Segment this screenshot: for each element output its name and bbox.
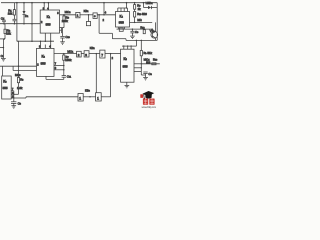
wire G3-G4 [81, 53, 84, 55]
capacitor C11 [63, 70, 65, 76]
svg-text:2: 2 [78, 53, 80, 57]
svg-text:1: 1 [77, 14, 79, 18]
gate box G3 [77, 51, 82, 57]
capacitor C10 [62, 28, 64, 37]
wire R1 top lead [13, 3, 15, 10]
svg-text:KB1: KB1 [84, 9, 89, 13]
svg-text:LED1: LED1 [146, 1, 154, 5]
IC K5 555 box right [121, 49, 134, 82]
svg-text:R12: R12 [140, 26, 144, 30]
node R10 bottom [134, 22, 136, 24]
svg-text:MΩ2: MΩ2 [65, 10, 72, 14]
svg-text:MΩ: MΩ [137, 18, 141, 22]
pin 3 stub K1 right [60, 14, 76, 16]
wire right rail [156, 3, 158, 41]
component box C5 [86, 22, 90, 26]
svg-text:510: 510 [146, 61, 151, 64]
wire branch V3 [31, 3, 33, 42]
svg-text:R10 510: R10 510 [137, 12, 147, 16]
svg-text:7: 7 [101, 53, 103, 57]
wire bus to W1 [126, 3, 128, 8]
svg-text:1k: 1k [138, 7, 142, 11]
ground under C6 [11, 105, 16, 107]
node x96.3 [96, 53, 98, 55]
resistor R8 [18, 66, 20, 77]
node x88.5 [88, 14, 90, 16]
wire W4 bottom long [14, 97, 26, 99]
node pin6 joint [63, 65, 65, 67]
node bus dots [123, 45, 124, 46]
LED D2 symbol [143, 3, 145, 8]
svg-text:3: 3 [85, 53, 87, 57]
svg-text:1: 1 [97, 96, 99, 100]
op IC K1 555 box [40, 10, 59, 33]
wire G5 out [105, 53, 121, 55]
ground under C9 [130, 35, 135, 37]
gate box G2 [93, 13, 97, 19]
wire K3 bus [13, 91, 15, 102]
pin stubs K4 top [117, 8, 119, 12]
node D1 top [23, 2, 25, 4]
wire left horizontal W2 [0, 23, 40, 25]
resistor R11 [140, 40, 142, 50]
wire K4 top bus [118, 7, 128, 9]
pin 3 stub K4 right [130, 21, 153, 23]
pin stubs K1 right lower [60, 27, 65, 29]
wire top rail W1 [1, 2, 157, 4]
ground under C10 [60, 41, 65, 43]
buffer box G1 [76, 12, 80, 17]
capacitor C6 [11, 101, 16, 103]
svg-text:KB2: KB2 [90, 46, 95, 50]
svg-text:www.dzdiy.com: www.dzdiy.com [142, 107, 157, 109]
svg-text:R13: R13 [153, 58, 157, 62]
wire stub y38.7 [112, 38, 126, 40]
pin 8 stub K1 top [43, 3, 45, 10]
pin stubs K3 right [11, 90, 14, 92]
svg-text:MΩ5: MΩ5 [15, 73, 20, 77]
svg-text:3: 3 [57, 12, 59, 15]
svg-text:100k: 100k [65, 58, 72, 62]
node V3 bottom [31, 40, 33, 42]
svg-text:K5: K5 [124, 57, 128, 61]
pin 7 stub K2 right [54, 65, 64, 67]
capacitor C1 [3, 17, 5, 20]
IC K2 555 box [37, 48, 55, 76]
wire W3 to R8 node [18, 65, 20, 67]
resistor R2 body on left branch [4, 24, 6, 30]
capacitor C9 [132, 28, 134, 30]
svg-text:555: 555 [119, 21, 124, 25]
svg-text:10k: 10k [8, 11, 13, 15]
wire drop x96.3 [95, 54, 97, 93]
pin stubs IC5 top [123, 46, 125, 49]
wire G4-G5 [89, 53, 100, 55]
watermark red char partial left [140, 94, 143, 98]
svg-text:K2: K2 [42, 55, 46, 59]
diode D1 [23, 3, 25, 11]
ground at V2 bottom [1, 58, 6, 60]
ground under C8 [143, 77, 148, 79]
svg-text:4: 4 [105, 11, 107, 14]
svg-text:c: c [94, 14, 96, 18]
svg-text:555: 555 [46, 23, 51, 27]
capacitor C2 below R1 [13, 15, 15, 19]
wire stub right of W3 [12, 66, 14, 70]
svg-text:R8: R8 [20, 77, 23, 81]
wire long vertical V1 [16, 3, 18, 42]
wire stub down to C5 box [88, 15, 90, 22]
svg-text:MΩ1: MΩ1 [67, 50, 74, 54]
pin stubs K1 bottom [44, 33, 46, 41]
watermark graduation cap [142, 91, 154, 99]
watermark red characters [143, 99, 155, 105]
wire out right y63.8 [141, 63, 160, 65]
IC K4 555 box [116, 12, 130, 28]
node W2 junctions [3, 23, 5, 25]
pin stubs IC5 right [134, 63, 141, 65]
svg-text:C6: C6 [18, 101, 22, 105]
resistor R7 [63, 53, 65, 55]
pin stubs K4 bottom [117, 27, 119, 29]
wire W6 right mid [126, 39, 157, 41]
svg-text:10k: 10k [6, 31, 11, 35]
wire drop x110.6 [110, 54, 112, 97]
wire IC5 top bus [135, 40, 137, 46]
wire IC5 right bus [140, 56, 142, 75]
svg-text:C10: C10 [65, 35, 70, 39]
wire from G2 node down-over [98, 14, 100, 16]
svg-text:2: 2 [112, 57, 114, 60]
resistor R6 [63, 15, 65, 16]
wire G7 out [101, 96, 110, 98]
wire vertical V1 lower [18, 41, 20, 66]
svg-text:C8: C8 [148, 72, 152, 76]
node W1 x126.5 [126, 2, 128, 4]
pin 4 stub K1 top [47, 3, 49, 10]
node stub y47.5 [3, 47, 5, 49]
node on W1 at x16.9 [16, 2, 18, 4]
wire mid-left W3 [0, 65, 37, 67]
IC K3 555 box bottom-left [2, 76, 12, 99]
pin 6 stub K2 right [54, 69, 64, 71]
gate box G5 [100, 50, 105, 58]
gate box G6 [78, 94, 83, 102]
svg-text:KB3: KB3 [85, 89, 90, 93]
wire G1 to G2 [80, 14, 93, 16]
wire G6-G7 [83, 96, 95, 98]
svg-text:K4: K4 [120, 14, 124, 18]
svg-text:C11: C11 [67, 75, 72, 79]
svg-text:Rb 51k: Rb 51k [144, 51, 153, 55]
svg-text:1: 1 [79, 97, 81, 101]
transistor VT1 [151, 31, 158, 38]
node W5 dots [45, 40, 47, 42]
node W6 [136, 40, 138, 42]
node [141, 63, 142, 64]
node W5 dot [40, 40, 42, 42]
resistor R10 [134, 12, 136, 18]
gate box G4 [84, 51, 89, 57]
gate box G7 [96, 93, 102, 101]
svg-text:2: 2 [37, 64, 39, 67]
wire G2 to K4 [97, 14, 115, 16]
svg-text:555: 555 [123, 65, 128, 69]
resistor R13 body [152, 63, 156, 65]
pin stubs K2 top [40, 41, 42, 48]
node bus x152 [151, 28, 153, 30]
wire V2 left vertical [4, 34, 6, 39]
wire under K1 W5 [17, 40, 54, 42]
capacitor C8 [141, 74, 145, 76]
wire K2 bottom [45, 76, 47, 79]
watermark red char detail [144, 99, 154, 105]
node stub y38.9 [3, 38, 5, 40]
sensor box MO3 [119, 28, 123, 31]
svg-text:K1: K1 [47, 15, 51, 19]
node x110.6 [110, 53, 112, 55]
resistor R1 body [13, 10, 15, 15]
resistor R12 body [143, 30, 145, 34]
node R6 top [63, 14, 65, 16]
svg-text:2: 2 [41, 21, 43, 24]
node R9 top [134, 2, 136, 4]
svg-text:C9: C9 [135, 30, 139, 34]
svg-text:K3: K3 [3, 79, 7, 83]
node x90 [89, 96, 91, 98]
svg-text:1.0k: 1.0k [17, 86, 23, 90]
svg-text:100k: 100k [62, 19, 69, 23]
resistor R9 [134, 3, 136, 5]
svg-text:D1: D1 [25, 14, 29, 18]
wire K2 out right [54, 53, 77, 55]
wire K4 bottom bus [117, 28, 153, 30]
ground IC5 bottom [126, 82, 128, 85]
node from W1 x104 [103, 3, 105, 15]
svg-text:555: 555 [3, 86, 8, 90]
svg-text:2: 2 [103, 19, 105, 22]
wire K3 top stub [2, 66, 4, 76]
svg-text:555: 555 [41, 61, 46, 65]
node [13, 94, 14, 95]
